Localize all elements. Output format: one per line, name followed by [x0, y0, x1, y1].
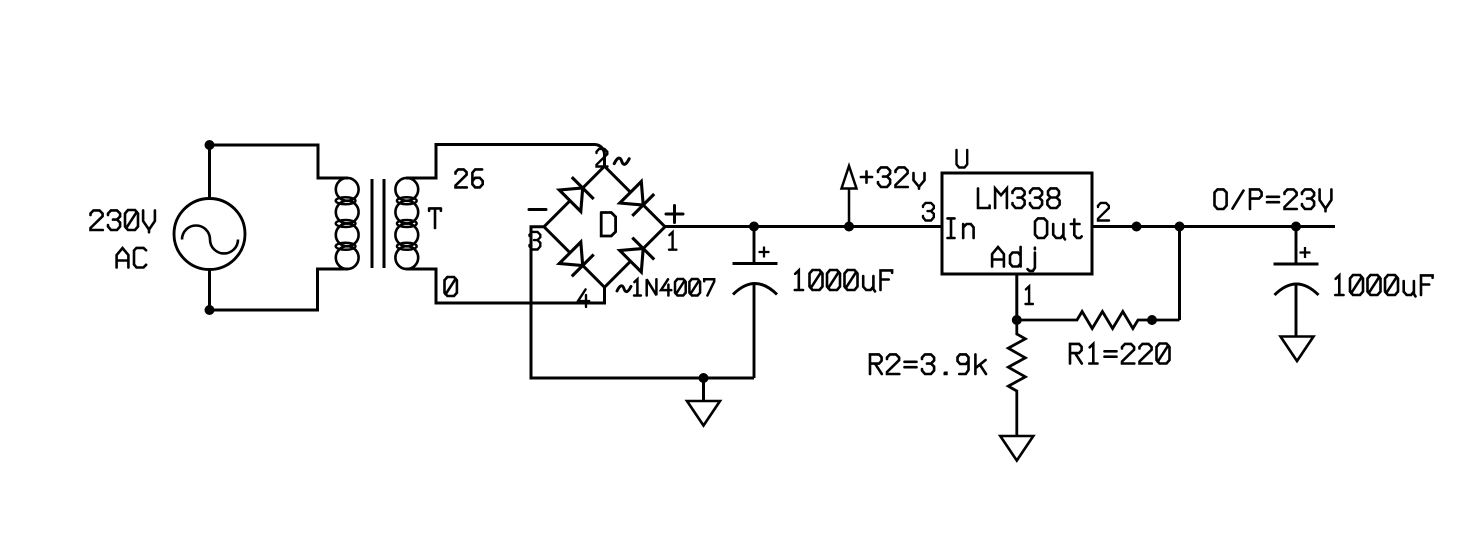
diode D-b (pin2 to pin1): [620, 182, 654, 216]
capacitor C1 1000uF (polarized): [733, 227, 778, 379]
junction dot V1 top: [205, 140, 215, 150]
wire regulator output rail: [1092, 225, 1335, 228]
bridge pin 2: [597, 149, 608, 167]
ground symbol G2: [1000, 436, 1033, 461]
wire V1 top stem: [208, 145, 211, 199]
transformer T1 primary winding: [336, 178, 359, 269]
pin name Adj: [992, 247, 1035, 271]
resistor R1 220 (zigzag): [1017, 312, 1180, 329]
wire feedback up to out rail: [1178, 227, 1181, 321]
label 26 (secondary tap): [456, 169, 483, 187]
net label O/P=23V: [1215, 189, 1332, 211]
label R2=3.9k: [870, 354, 986, 374]
resistor R2 3.9k (zigzag): [1008, 320, 1025, 436]
power flag +32v arrow: [842, 166, 857, 227]
label C2 value 1000uF: [1335, 275, 1432, 296]
op-amp/regulator U1 LM338 box: [942, 173, 1092, 274]
transformer T1 secondary winding: [395, 178, 418, 269]
bridge pin 3: [530, 232, 541, 250]
junction dot out rail a: [1132, 222, 1142, 232]
bridge - mark: [529, 208, 546, 211]
capacitor C2 1000uF (polarized): [1274, 227, 1319, 337]
pin number 3 (In): [923, 203, 934, 221]
wire Adj pin stub: [1015, 274, 1018, 320]
diode bridge D outline (diamond): [544, 166, 665, 287]
pin name Out: [1035, 218, 1082, 239]
pin name In: [948, 218, 974, 238]
wire V1 top to transformer primary: [210, 145, 349, 178]
ground symbol G3: [1281, 337, 1314, 362]
bridge + mark: [666, 206, 683, 223]
diode D-a (pin3 to pin2): [559, 177, 593, 211]
label LM338: [978, 188, 1060, 208]
wire secondary bottom to bridge pin4: [406, 269, 605, 303]
label AC: [117, 248, 147, 268]
transformer T1 core: [372, 179, 384, 268]
label 230V: [91, 210, 155, 232]
wire ground stem G1: [702, 378, 705, 401]
label 0 (secondary tap): [445, 277, 457, 296]
bridge pin 1: [669, 232, 676, 250]
wire bridge pin3 to ground rail: [531, 227, 754, 378]
bridge ~ mark top: [614, 158, 629, 164]
junction dot Adj node: [1012, 315, 1022, 325]
junction dot ground rail: [699, 373, 709, 383]
label C1 value 1000uF: [795, 270, 892, 291]
junction dot out rail b: [1175, 222, 1185, 232]
label U (ref designator): [957, 150, 968, 168]
wire secondary top to bridge: [406, 145, 594, 179]
wire rounded corner into bridge top: [594, 144, 605, 166]
voltage source V1 230V AC (circle with sine): [174, 199, 245, 270]
bridge pin 4: [578, 289, 589, 307]
wire bridge pin1 to regulator input rail: [665, 225, 942, 228]
label 1N4007: [634, 279, 714, 296]
junction dot R1 right: [1147, 315, 1157, 325]
label D (bridge ref): [601, 213, 615, 237]
ground symbol G1: [687, 401, 720, 426]
junction dot at C1: [749, 222, 759, 232]
junction dot at C2: [1291, 222, 1301, 232]
junction dot at +32v: [844, 222, 854, 232]
diode D-c (pin3 to pin4): [559, 242, 593, 276]
junction dot V1 bottom: [205, 305, 215, 315]
pin number 2 (Out): [1098, 203, 1109, 221]
net label +32v: [861, 167, 925, 188]
label T (transformer ref): [429, 208, 441, 228]
wire V1 bottom stem: [208, 269, 211, 310]
bridge ~ mark bottom: [617, 286, 631, 292]
wire V1 bottom to transformer primary: [210, 269, 349, 310]
diode D-d (pin4 to pin1): [620, 238, 654, 272]
label R1=220: [1070, 344, 1170, 364]
pin number 1 (Adj): [1026, 286, 1033, 304]
